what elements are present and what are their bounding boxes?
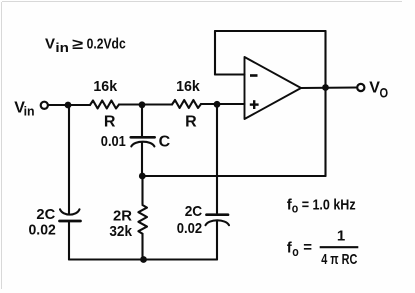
svg-text:2C: 2C [185, 203, 203, 220]
svg-text:0.02: 0.02 [29, 222, 56, 239]
resistor R2 16k [172, 100, 201, 108]
capacitor 2C left curved plate [60, 209, 80, 214]
feedback wire left vertical [214, 31, 216, 75]
wire node D to resistor 2R [141, 176, 143, 204]
svg-text:V: V [45, 36, 55, 53]
svg-text:0.2Vdc: 0.2Vdc [87, 36, 126, 53]
output node junction dot [322, 84, 329, 91]
capacitor C curved plate [131, 142, 154, 147]
node D junction dot (twin-T mid) [139, 173, 146, 180]
svg-text:32k: 32k [109, 223, 132, 240]
svg-text:≥: ≥ [72, 36, 83, 53]
feedback wire bottom [143, 175, 326, 177]
capacitor C straight plate [131, 136, 155, 139]
wire 2R to bottom node [141, 234, 143, 260]
bottom node junction dot [140, 256, 147, 263]
svg-text:R: R [104, 114, 116, 131]
output wire [301, 86, 357, 89]
op-amp plus sign [250, 100, 259, 109]
wire 2C left to bottom [68, 223, 70, 260]
wire to op-amp minus input [215, 73, 245, 75]
svg-text:1: 1 [337, 227, 345, 244]
capacitor 2C right straight plate [207, 213, 229, 216]
wire node B down to cap C [141, 105, 143, 137]
node C junction dot (op-amp + input) [214, 101, 221, 108]
capacitor 2C left straight plate [60, 220, 81, 223]
node B junction dot [139, 101, 146, 108]
svg-text:2R: 2R [113, 207, 132, 224]
svg-text:= 1.0 kHz: = 1.0 kHz [302, 197, 356, 214]
svg-text:o: o [292, 200, 299, 215]
svg-text:in: in [24, 104, 35, 119]
wire to op-amp + input [201, 103, 245, 105]
resistor 2R 32k vertical [138, 205, 147, 234]
bottom wire [69, 258, 217, 260]
svg-text:16k: 16k [93, 78, 117, 95]
node A junction dot [65, 102, 72, 109]
feedback wire top [215, 30, 326, 32]
resistor R1 16k [90, 101, 119, 109]
wire input to node A [49, 104, 91, 106]
wire node C down [216, 105, 218, 214]
wire cap C to node D [141, 143, 143, 177]
fraction bar [320, 246, 359, 248]
capacitor 2C right curved plate [206, 220, 230, 225]
svg-text:O: O [380, 85, 389, 101]
svg-text:=: = [303, 239, 312, 256]
svg-text:0.02: 0.02 [177, 220, 202, 237]
svg-text:2C: 2C [36, 206, 55, 223]
svg-text:16k: 16k [176, 78, 200, 95]
wire 2C right to bottom wire [216, 222, 218, 260]
op-amp minus sign [250, 74, 258, 77]
svg-text:in: in [55, 40, 69, 55]
feedback wire vertical right [324, 31, 326, 176]
svg-text:0.01: 0.01 [101, 133, 126, 150]
svg-text:R: R [185, 114, 197, 131]
border frame (decorative) [2, 1, 402, 3]
output terminal circle [357, 84, 364, 91]
wire node B segment [119, 103, 172, 105]
svg-text:o: o [292, 244, 299, 259]
svg-text:C: C [159, 134, 171, 151]
op-amp U1 triangle [245, 57, 302, 119]
wire node A down [68, 105, 70, 215]
input terminal circle [41, 102, 48, 109]
svg-text:4 π RC: 4 π RC [321, 251, 357, 268]
